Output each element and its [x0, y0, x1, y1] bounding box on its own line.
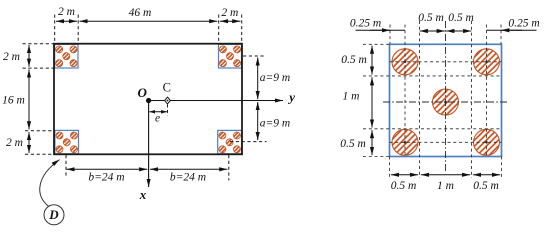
dashed line below C	[167, 105, 169, 116]
grid line vertical x=471.5	[471, 21, 473, 178]
extension line bottom x=228.8	[228, 155, 230, 181]
extension line left y=130.7	[25, 130, 54, 132]
svg-text:1 m: 1 m	[343, 91, 360, 103]
dimension 2 m left-top	[3, 45, 29, 67]
column hole top-left	[392, 49, 418, 75]
centroid C diamond	[163, 80, 171, 104]
dimension a=9 m lower	[258, 102, 291, 140]
hole square top-right	[219, 44, 242, 68]
extension line top x=54.7	[54, 15, 56, 44]
grid line vertical x=501 ext above	[500, 25, 502, 45]
svg-text:0.5 m: 0.5 m	[391, 180, 417, 192]
svg-text:D: D	[48, 207, 59, 222]
grid line horizontal y=75.9	[363, 75, 502, 77]
svg-text:C: C	[163, 80, 171, 94]
extension line left y=68.1	[23, 67, 54, 69]
extension line bottom x=66	[65, 155, 67, 178]
origin O	[138, 85, 152, 103]
dimension 0.5 m left-top	[341, 46, 372, 75]
dimension 0.5 m top-left-half	[418, 12, 445, 31]
grid centerline vertical x=445.5	[445, 21, 447, 171]
grid line vertical x=405	[404, 25, 406, 157]
dimension 0.5 m bottom-right	[473, 175, 500, 192]
grid line vertical x=389.5 ext below	[389, 157, 391, 179]
grid centerline horizontal y=102	[383, 101, 507, 103]
grid line vertical x=486.5	[486, 25, 488, 157]
plate outline rectangle	[54, 44, 242, 155]
svg-text:b=24 m: b=24 m	[170, 172, 206, 184]
dimension 0.25 m top-left	[350, 18, 405, 31]
svg-text:46 m: 46 m	[129, 7, 152, 19]
svg-text:2 m: 2 m	[6, 137, 23, 149]
dimension 2 m left-bottom	[6, 132, 29, 153]
column hole top-right	[474, 49, 500, 75]
y axis	[149, 90, 296, 105]
column hole bottom-left	[392, 129, 418, 155]
extension line left y=43.7	[23, 43, 54, 45]
svg-text:2 m: 2 m	[3, 51, 20, 63]
extension line right y=141.6	[230, 141, 267, 143]
svg-text:O: O	[138, 85, 148, 100]
grid line vertical x=501.5 ext below	[501, 157, 503, 179]
dimension 0.5 m bottom-left	[391, 175, 418, 192]
dimension 1 m bottom	[421, 175, 470, 192]
svg-text:0.25 m: 0.25 m	[350, 18, 381, 30]
grid line horizontal y=44.3 ext left	[363, 43, 390, 45]
svg-text:16 m: 16 m	[2, 95, 25, 107]
extension line top x=218.7	[218, 15, 220, 44]
dimension 0.5 m top-right-half	[446, 12, 474, 31]
dimension 2 m top-right	[220, 7, 240, 21]
leader arrow from D	[40, 160, 60, 207]
svg-text:0.5 m: 0.5 m	[448, 12, 474, 24]
svg-text:2 m: 2 m	[58, 6, 75, 18]
svg-text:2 m: 2 m	[221, 7, 238, 19]
grid line vertical x=419.5	[419, 21, 421, 178]
hole square top-left	[55, 44, 78, 68]
dimension 16 m left	[2, 69, 29, 129]
svg-text:y: y	[287, 90, 295, 105]
svg-text:0.5 m: 0.5 m	[418, 12, 444, 24]
svg-text:a=9 m: a=9 m	[260, 72, 290, 84]
svg-text:0.5 m: 0.5 m	[473, 180, 499, 192]
grid line horizontal y=156.5 ext left	[363, 156, 390, 158]
dimension 46 m top	[80, 7, 218, 21]
column hole center	[433, 89, 459, 115]
hole square bottom-left	[55, 130, 79, 153]
extension line left y=154.3	[25, 153, 54, 155]
svg-text:b=24 m: b=24 m	[88, 172, 124, 184]
dimension a=9 m upper	[258, 57, 291, 99]
label D circle	[44, 205, 64, 225]
dimension 1 m left	[343, 77, 372, 127]
grid line horizontal y=61.8	[390, 61, 502, 63]
svg-text:0.25 m: 0.25 m	[508, 17, 539, 29]
hole square bottom-right	[218, 130, 242, 153]
svg-text:0.5 m: 0.5 m	[340, 138, 366, 150]
dimension 0.25 m top-right	[487, 17, 540, 30]
footing square outline	[390, 44, 502, 156]
svg-text:e: e	[155, 113, 160, 125]
dimension b=24 m right	[150, 169, 227, 183]
grid line horizontal y=142.3	[390, 141, 502, 143]
extension line right y=56	[243, 55, 266, 57]
svg-text:a=9 m: a=9 m	[260, 118, 290, 130]
dimension e	[149, 112, 167, 125]
extension line top x=241.7	[241, 15, 243, 44]
dimension b=24 m left	[66, 169, 147, 183]
extension line top x=78.2	[77, 15, 79, 44]
column hole bottom-right	[474, 129, 500, 155]
x axis	[139, 101, 149, 203]
grid line horizontal y=128.8	[363, 128, 502, 130]
svg-text:x: x	[139, 187, 147, 202]
grid line vertical x=390 ext above	[389, 25, 391, 45]
dimension 0.5 m left-bottom	[340, 130, 372, 155]
dimension 2 m top-left	[56, 6, 77, 21]
svg-text:1 m: 1 m	[437, 180, 454, 192]
svg-text:0.5 m: 0.5 m	[341, 54, 367, 66]
